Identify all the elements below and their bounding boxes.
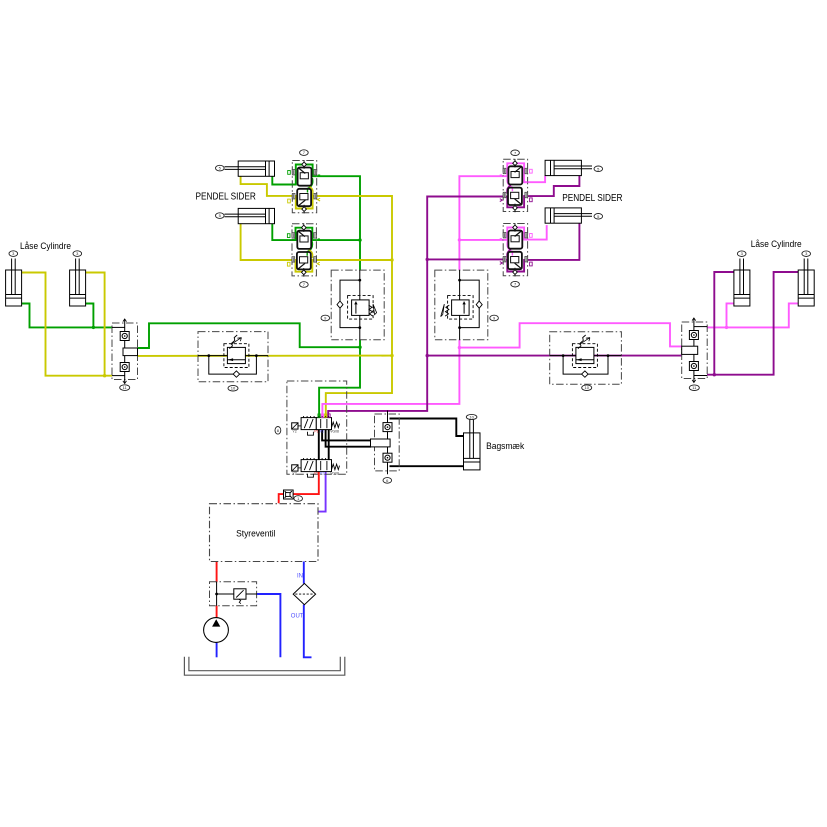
label ellipse cylinder 3B — [73, 251, 82, 257]
wire green laase cyl2 drop — [86, 304, 94, 328]
pump 12 — [204, 618, 229, 643]
svg-text:Styreventil: Styreventil — [236, 528, 275, 538]
wire magenta stack R2 to trunk — [459, 239, 503, 241]
junction green trunk mid — [358, 346, 361, 349]
solenoid valve Y2 lower — [292, 458, 340, 477]
junction red pump relief — [215, 593, 218, 596]
wire black check block 6 to bagsmaek cyl top — [390, 419, 464, 437]
cylinder 3B laase left — [70, 259, 86, 307]
label ellipse block 11 right — [689, 385, 699, 391]
counterbalance stack 7 left-top — [288, 160, 320, 213]
svg-text:Bagsmæk: Bagsmæk — [486, 441, 524, 452]
junction yellow laase — [103, 374, 106, 377]
cylinder 5D pendel right-bottom — [545, 208, 592, 223]
wire magenta stack R1 to relief 9R — [459, 176, 503, 270]
label ellipse relief 10 right — [582, 385, 592, 391]
wire yellow stack L2 to trunk — [316, 259, 392, 261]
wire purple trunk long line to block 11R — [427, 355, 682, 357]
label ellipse cylinder 5A — [216, 165, 225, 171]
wire yellow stack L1 to trunk — [317, 196, 392, 356]
relief valve block 4 — [210, 582, 258, 606]
svg-text:10: 10 — [231, 386, 236, 391]
label ellipse relief 10 left — [228, 385, 238, 391]
svg-text:P1: P1 — [314, 472, 318, 476]
wire red relief block 4 to pump — [216, 606, 218, 618]
wire magenta laase cyl4 to block 11R — [707, 303, 798, 327]
cylinder 3A laase left — [6, 259, 22, 307]
wire black valve Y2a port P2 to valve Y2b — [328, 430, 330, 460]
wire purple cyl5D to stack R2 — [524, 223, 579, 260]
counterbalance stack 7 right-bottom — [500, 223, 532, 276]
label ellipse cylinder 5C — [594, 166, 603, 172]
svg-text:VG08: VG08 — [330, 430, 339, 434]
wire yellow block 11L long line to trunk — [138, 355, 393, 357]
dual check block 11 right — [682, 318, 708, 383]
label ellipse cylinder 10 — [466, 414, 477, 419]
wire green cyl5A to stack L1 — [272, 176, 294, 185]
wire green laase cyl1 to block 11L — [22, 304, 112, 328]
label ellipse solenoid group 8 — [275, 427, 281, 435]
wire blue relief valve 4 to tank — [257, 594, 281, 657]
wire magenta cyl5D to stack R2 — [524, 225, 547, 240]
junction purple trunk/stack R2 — [426, 258, 429, 261]
junction purple trunk — [426, 354, 429, 357]
relief valve block 10 right — [562, 354, 565, 357]
wire black valve Y2a to check block 6 lower — [326, 430, 371, 447]
svg-text:Låse Cylindre: Låse Cylindre — [751, 239, 802, 249]
wire magenta laase cyl3 drop — [727, 303, 734, 327]
wire blue filter OUT to tank — [304, 605, 312, 658]
label ellipse cylinder 5B — [216, 213, 225, 219]
counterbalance stack 7 right-top — [500, 159, 532, 212]
wire green stack L2 to green trunk — [316, 239, 360, 241]
label ellipse stack right-bottom — [511, 281, 520, 287]
wire magenta trunk to block 11R — [459, 323, 682, 347]
svg-text:Y2: Y2 — [292, 430, 296, 434]
wire red styreventil to relief block 4 — [216, 562, 218, 583]
wire yellow trunk to valve C3 — [326, 356, 392, 417]
wire green cyl5B to stack L2 — [272, 224, 294, 240]
svg-text:Låse Cylindre: Låse Cylindre — [20, 241, 71, 251]
tank reservoir — [184, 657, 344, 675]
wire black check block 6 to bagsmaek cyl bottom — [390, 465, 464, 467]
svg-text:Y2: Y2 — [292, 472, 296, 476]
label ellipse cylinder 3C — [737, 251, 746, 257]
wire yellow cyl5B to stack L2 — [241, 224, 294, 260]
svg-text:IN: IN — [297, 574, 303, 580]
solenoid valve Y2 upper — [292, 416, 340, 435]
svg-text:OUT: OUT — [291, 614, 304, 620]
label ellipse check valve 1 — [294, 496, 303, 502]
styreventil box 2 — [210, 504, 319, 562]
filter 13 — [293, 583, 315, 604]
wire violet valve Y2b P2 to styreventil — [318, 472, 326, 512]
relief valve block 9 right — [458, 279, 461, 282]
junction green laase — [92, 326, 95, 329]
wire blue styreventil IN to filter — [303, 562, 305, 584]
pilot check block 6 bagsmaek — [371, 411, 400, 475]
junction magenta trunk — [458, 346, 461, 349]
wire yellow cyl5A to stack L1 — [241, 176, 295, 196]
junction magenta laase — [725, 326, 728, 329]
label ellipse check block 6 — [383, 478, 392, 484]
cylinder 5B pendel left-bottom — [225, 208, 275, 223]
check valve 1 — [284, 490, 294, 499]
wire yellow laase cyl2 drop — [86, 273, 105, 376]
wire purple cyl5C to stack R1 — [524, 176, 579, 196]
wire magenta relief 9R to valve C2 — [322, 340, 459, 417]
svg-text:P1: P1 — [314, 430, 318, 434]
junction purple laase — [713, 373, 716, 376]
label ellipse cylinder 3A — [9, 251, 18, 257]
wire green stack L1 to relief block 9L — [317, 176, 360, 270]
label ellipse block 11 left — [120, 385, 130, 391]
wire yellow laase cyl1 to block 11L — [22, 273, 112, 376]
label ellipse stack left-bottom — [300, 282, 309, 288]
dual check block 11 left — [112, 319, 138, 384]
wire purple laase cyl4 to block 11R — [707, 272, 798, 375]
junction yellow trunk/stack L2 — [390, 258, 393, 261]
junction green trunk/stack L2 — [358, 238, 361, 241]
wire purple stack R2 to trunk — [427, 258, 503, 260]
svg-text:10: 10 — [469, 415, 474, 420]
wire green relief 9L to valve C1 — [319, 340, 360, 417]
wire blue pump suction to tank — [216, 643, 218, 658]
wire black valve Y2a to check block 6 upper — [322, 430, 371, 441]
wire magenta cyl5C to stack R1 — [524, 176, 545, 182]
cylinder 5A pendel left-top — [225, 161, 275, 176]
label ellipse cylinder 5D — [594, 214, 603, 220]
label ellipse cylinder 3D — [802, 251, 811, 257]
port marks upper solenoid valve — [318, 414, 330, 417]
wire red valve Y2b P1 to styreventil via check valve 1 — [279, 472, 319, 504]
cylinder 3C laase right — [734, 259, 750, 307]
wire purple stack R1 to valve C4 — [328, 197, 503, 418]
relief valve block 9 left — [358, 279, 361, 282]
label ellipse relief 9 left — [321, 315, 330, 321]
wire black valve Y2a port P1 to valve Y2b — [318, 430, 320, 460]
label ellipse stack left-top — [300, 150, 309, 156]
junction magenta trunk/stack R2 — [458, 238, 461, 241]
svg-text:VG08: VG08 — [330, 472, 339, 476]
wire purple laase cyl3 drop — [714, 272, 734, 375]
cylinder 3D laase right — [798, 259, 814, 307]
junction yellow trunk — [390, 354, 393, 357]
label ellipse relief 9 right — [490, 315, 499, 321]
svg-text:P2: P2 — [320, 472, 324, 476]
svg-text:10: 10 — [584, 385, 589, 390]
svg-text:P2: P2 — [320, 430, 324, 434]
wire green block 11L to trunk — [138, 323, 361, 348]
counterbalance stack 7 left-bottom — [287, 223, 320, 276]
cylinder 10 bagsmaek — [464, 420, 481, 470]
svg-text:PENDEL SIDER: PENDEL SIDER — [562, 193, 622, 204]
relief valve block 10 left — [207, 354, 210, 357]
cylinder 5C pendel right-top — [545, 160, 592, 175]
svg-text:PENDEL SIDER: PENDEL SIDER — [196, 191, 256, 202]
label ellipse stack right-top — [511, 150, 520, 156]
dash-dot enclosure solenoid valve group 8 — [287, 381, 347, 474]
